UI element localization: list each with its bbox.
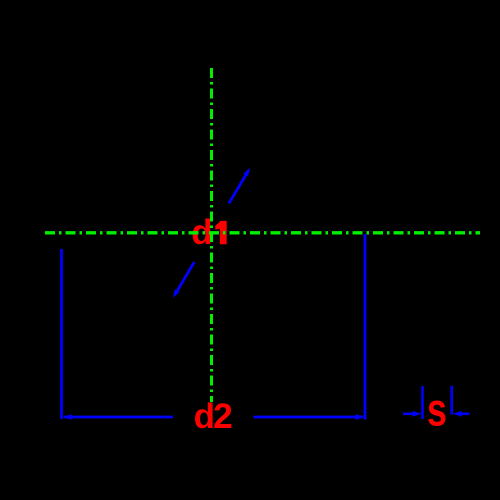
arrow line s left — [403, 412, 413, 415]
svg-text:2: 2 — [213, 397, 232, 436]
arrowhead s right — [453, 411, 462, 417]
arrow line s right — [461, 412, 470, 415]
vertical centerline — [210, 68, 213, 402]
dimension line d2 right part — [253, 416, 363, 419]
horizontal centerline — [45, 231, 480, 234]
arrowhead d1 lower — [173, 289, 180, 298]
svg-text:d: d — [194, 397, 215, 436]
dimension line d1 lower segment — [177, 262, 194, 291]
svg-text:s: s — [427, 384, 447, 435]
extension line s right — [450, 386, 453, 415]
arrowhead s left — [413, 411, 422, 417]
arrowhead d2 right — [356, 414, 365, 420]
arrowhead d1 upper — [243, 168, 250, 177]
dimension line d2 left part — [64, 416, 173, 419]
dimension line d1 upper segment — [229, 175, 246, 203]
extension line left d2 — [60, 249, 63, 419]
extension line right d2 — [364, 234, 367, 420]
label d1 digit 1 — [215, 221, 227, 244]
arrowhead d2 left — [63, 414, 72, 420]
extension line s left — [421, 386, 424, 419]
